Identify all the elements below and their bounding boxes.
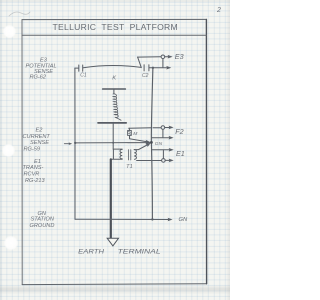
wire 2M lead bottom to GN node <box>130 135 148 142</box>
svg-text:RG-59: RG-59 <box>24 147 40 153</box>
stem E3 circle to wire <box>162 59 164 68</box>
svg-text:K: K <box>112 76 117 82</box>
node bottom bus meets right bus <box>151 218 153 220</box>
earth terminal arrow (hollow) <box>107 238 118 246</box>
node main bus top junction <box>152 67 154 69</box>
svg-text:2: 2 <box>216 7 221 14</box>
svg-text:E1: E1 <box>34 159 41 165</box>
svg-text:EARTH: EARTH <box>78 249 104 256</box>
svg-text:T1: T1 <box>126 164 133 170</box>
svg-text:STATION: STATION <box>31 217 55 223</box>
wire E3 upper line <box>138 56 169 58</box>
wire C2 to E3 lower arrow <box>149 67 167 69</box>
relay K bottom plate <box>98 122 126 124</box>
stem E1 upper line to circle <box>162 150 164 159</box>
hole punch middle <box>2 144 15 157</box>
wire T1 right top stub to GN node <box>134 145 148 150</box>
transformer T1 left winding <box>120 149 122 158</box>
transformer T1 core <box>129 150 131 160</box>
label E1 trans-rcvr RG-213 <box>23 159 46 184</box>
transformer T1 left top stub <box>113 148 122 150</box>
svg-text:RCVR: RCVR <box>24 172 40 178</box>
arrowhead F2 upper <box>169 126 174 130</box>
arrowhead E3 lower <box>166 66 171 70</box>
connector circle E3 <box>161 55 165 59</box>
wire K bottom stem down <box>112 124 114 149</box>
node GN junction <box>150 141 153 144</box>
label GN station ground <box>30 211 55 229</box>
border bottom edge <box>22 283 206 286</box>
transformer T1 left vertical jog <box>111 149 123 159</box>
svg-text:F2: F2 <box>175 127 183 136</box>
border left edge <box>21 20 23 285</box>
wire left bus <box>74 68 76 219</box>
coil K winding scribble <box>113 94 121 120</box>
title box divider line <box>22 34 206 36</box>
svg-text:M: M <box>133 131 138 137</box>
svg-text:E3: E3 <box>175 52 184 61</box>
arrowhead GN bottom right <box>168 218 173 222</box>
svg-text:TELLURIC TEST PLATFORM: TELLURIC TEST PLATFORM <box>53 22 179 32</box>
svg-text:RG-213: RG-213 <box>25 178 45 184</box>
arrowhead F2 lower <box>169 136 174 140</box>
wire top C1 to C2 <box>83 65 141 67</box>
node stem crosses ground wire <box>112 142 114 144</box>
wire E1 lower line <box>137 159 170 161</box>
pencil scratch above top-left corner <box>9 12 30 16</box>
relay K top plate <box>103 88 126 90</box>
svg-text:TRANS-: TRANS- <box>23 165 44 171</box>
arrowhead E3 upper <box>168 55 173 59</box>
label E3 potential sense RG-62 <box>26 58 57 81</box>
wire bottom ground bus <box>75 218 169 220</box>
wire station ground to GN node <box>75 142 147 144</box>
riser to E3 upper line <box>138 57 142 68</box>
arrowhead into GN node from 2M <box>146 140 151 144</box>
svg-text:C1: C1 <box>80 73 87 79</box>
arrowhead E1 upper <box>169 148 174 152</box>
svg-text:GROUND: GROUND <box>30 223 55 229</box>
wire F2 upper line <box>129 127 170 130</box>
node bottom left corner <box>110 218 112 220</box>
connector circle E1 <box>162 159 166 163</box>
transformer T1 right winding <box>134 150 136 160</box>
tick small arrow at left bus <box>64 143 69 145</box>
svg-text:SENSE: SENSE <box>30 140 49 146</box>
svg-text:C2: C2 <box>142 73 149 79</box>
svg-text:E1: E1 <box>176 149 185 158</box>
wire K plate to coil <box>113 90 115 94</box>
wire main right bus <box>151 68 153 220</box>
label E2 current sense RG-59 <box>23 128 51 153</box>
resistor 2M body <box>128 131 132 136</box>
border right edge (darker) <box>205 19 207 283</box>
capacitor C1 <box>79 65 83 71</box>
arrowhead E1 lower <box>169 159 174 163</box>
svg-text:GN: GN <box>179 217 189 223</box>
wire E1 upper line <box>152 149 170 151</box>
stem F2 circle to lower line <box>162 129 164 137</box>
wire earth drop (thick) <box>110 159 112 238</box>
svg-text:RG-62: RG-62 <box>30 75 47 81</box>
resistor 2M lead top <box>128 128 130 130</box>
arrowhead into GN node from T1 <box>146 143 151 147</box>
svg-text:E2: E2 <box>36 128 44 134</box>
hole punch top <box>3 25 16 38</box>
connector circle F2 <box>161 126 165 130</box>
svg-text:CURRENT: CURRENT <box>23 134 51 140</box>
svg-text:TERMINAL: TERMINAL <box>118 249 162 256</box>
border outer box <box>22 18 206 20</box>
svg-text:GN: GN <box>155 141 163 147</box>
hole punch bottom <box>4 236 18 250</box>
capacitor C2 <box>144 65 149 71</box>
arrowhead into GN node from left <box>146 141 151 145</box>
node left bus ground junction <box>74 142 76 144</box>
wire F2 lower line <box>152 137 170 139</box>
wire top (C1 left stub) <box>75 67 78 69</box>
